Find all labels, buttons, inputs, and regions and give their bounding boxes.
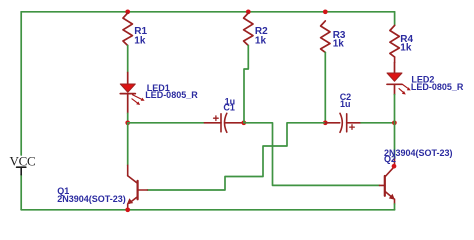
wire R1 to LED1 [127, 46, 129, 73]
svg-text:1k: 1k [134, 36, 146, 47]
wire LED2 to node [394, 95, 396, 123]
LED1 [120, 73, 198, 114]
wire R4 from top rail corner [394, 12, 396, 26]
wire C1 node to Q2 base [244, 123, 380, 186]
transistor Q2 [380, 159, 395, 204]
VCC supply symbol [17, 167, 26, 175]
wire node to Q2 collector [394, 123, 396, 159]
capacitor C1 [204, 113, 243, 132]
LED2 [387, 63, 464, 95]
wire LED1 to node [127, 113, 129, 122]
svg-text:2N3904(SOT-23): 2N3904(SOT-23) [57, 194, 126, 204]
junction dot C1/R2 [241, 120, 246, 125]
wire R3 to C2 node [324, 52, 326, 122]
svg-text:1k: 1k [255, 36, 267, 47]
wire R2 to C1 node [244, 46, 248, 123]
wire left border [20, 12, 22, 155]
resistor R3 [321, 21, 330, 53]
wire bottom rail [21, 209, 394, 211]
junction dot R2/top rail [246, 9, 251, 14]
wire R4 to LED2 [394, 57, 396, 63]
resistor R2 [244, 13, 253, 46]
wire C2 right to LED2 node [361, 122, 394, 124]
junction dot Q1 emitter [125, 207, 130, 212]
transistor Q1 [127, 165, 147, 210]
junction dot LED1/C1 [125, 120, 130, 125]
svg-text:1k: 1k [400, 42, 412, 53]
svg-text:LED-0805_R: LED-0805_R [411, 82, 464, 92]
capacitor C2 [325, 113, 361, 132]
junction dot C2/LED2 [392, 120, 397, 125]
svg-text:VCC: VCC [10, 153, 36, 168]
junction dot R1/top rail [125, 9, 130, 14]
wire C1 left lead [128, 122, 205, 124]
svg-text:C1: C1 [223, 102, 235, 112]
junction dot R3/C2 [323, 120, 328, 125]
wire Q2 emitter to rail [394, 204, 396, 210]
svg-text:1u: 1u [340, 99, 351, 109]
svg-text:1k: 1k [333, 39, 345, 50]
wire top rail VCC [21, 11, 394, 13]
svg-text:Q2: Q2 [384, 154, 396, 164]
resistor R1 [123, 13, 132, 46]
junction dot R3/top rail [323, 9, 328, 14]
svg-text:LED-0805_R: LED-0805_R [145, 90, 198, 100]
junction dot Q2 collector [392, 164, 397, 169]
wire node to Q1 collector [127, 123, 129, 166]
wire C2 node to Q1 base path [147, 123, 325, 190]
resistor R4 [390, 25, 399, 57]
